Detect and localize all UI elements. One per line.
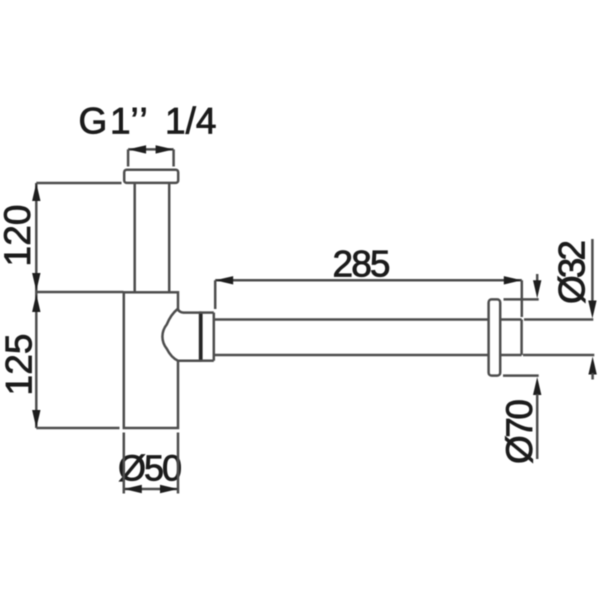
arrow down 120 (32, 273, 40, 291)
dia32 down arrow (588, 301, 596, 319)
arrow up 125 (32, 294, 40, 312)
tailpiece flange nut (124, 170, 178, 183)
extension line bottom of 125 (36, 427, 119, 430)
dia70 top arrow shaft (536, 274, 539, 282)
arrow right G1/4 (156, 145, 174, 153)
dim line dia50 (124, 488, 178, 491)
extension tick left G1/4 (127, 149, 130, 166)
outlet pipe bottom wall (214, 354, 489, 357)
dia32 bottom arrow shaft (591, 373, 594, 380)
wall stub right edge (520, 320, 523, 356)
svg-text:Ø32: Ø32 (552, 240, 593, 304)
pipe top extension for dia32 (524, 318, 593, 321)
pipe bottom extension for dia32 (523, 354, 594, 357)
dim line 125 (35, 292, 38, 428)
wall flange (489, 299, 501, 375)
extension line top of 120 (36, 182, 121, 185)
arrow left G1/4 (128, 145, 146, 153)
svg-text:Ø70: Ø70 (499, 399, 540, 464)
inlet pipe left wall (133, 183, 136, 292)
collar ring right edge (213, 313, 216, 361)
dim line 120 (35, 183, 38, 292)
svg-text:G1’’1/4: G1’’1/4 (79, 101, 217, 142)
dim line G1/4 (128, 148, 174, 151)
flange bottom extension for dia70 (503, 374, 539, 377)
shared extension line at body top (36, 291, 123, 294)
dia70 top arrow (533, 280, 541, 298)
extension left 285 (214, 280, 217, 309)
dia50 extension left (123, 433, 126, 494)
trap body cup (124, 292, 178, 428)
extension right 285 (521, 280, 524, 317)
dia32 bottom arrow (588, 357, 596, 375)
inlet pipe right wall (168, 183, 171, 292)
arrow down 125 (32, 410, 40, 428)
dim line 285 (215, 279, 522, 282)
collar ring top (199, 311, 214, 314)
svg-text:125: 125 (0, 334, 39, 396)
arrow right 285 (504, 276, 522, 284)
arrow right dia50 (160, 485, 178, 493)
arrow left 285 (215, 276, 233, 284)
dia70 bottom arrow shaft (536, 394, 539, 459)
svg-text:Ø50: Ø50 (118, 448, 182, 489)
svg-text:120: 120 (0, 205, 38, 267)
arrow up 120 (32, 183, 40, 201)
wall stub bottom (500, 354, 521, 357)
wall stub top (500, 318, 521, 321)
collar ring bottom (199, 359, 214, 362)
flange top extension for dia70 (504, 298, 539, 301)
elbow dome (162, 309, 200, 361)
joint thick line (199, 313, 202, 361)
dia32 leader shaft (591, 239, 594, 302)
dia70 bottom arrow (533, 377, 541, 395)
outlet pipe top wall (214, 318, 489, 321)
arrow left dia50 (124, 485, 142, 493)
dia50 extension right (177, 433, 180, 494)
extension tick right G1/4 (172, 149, 175, 166)
svg-text:285: 285 (333, 244, 391, 285)
